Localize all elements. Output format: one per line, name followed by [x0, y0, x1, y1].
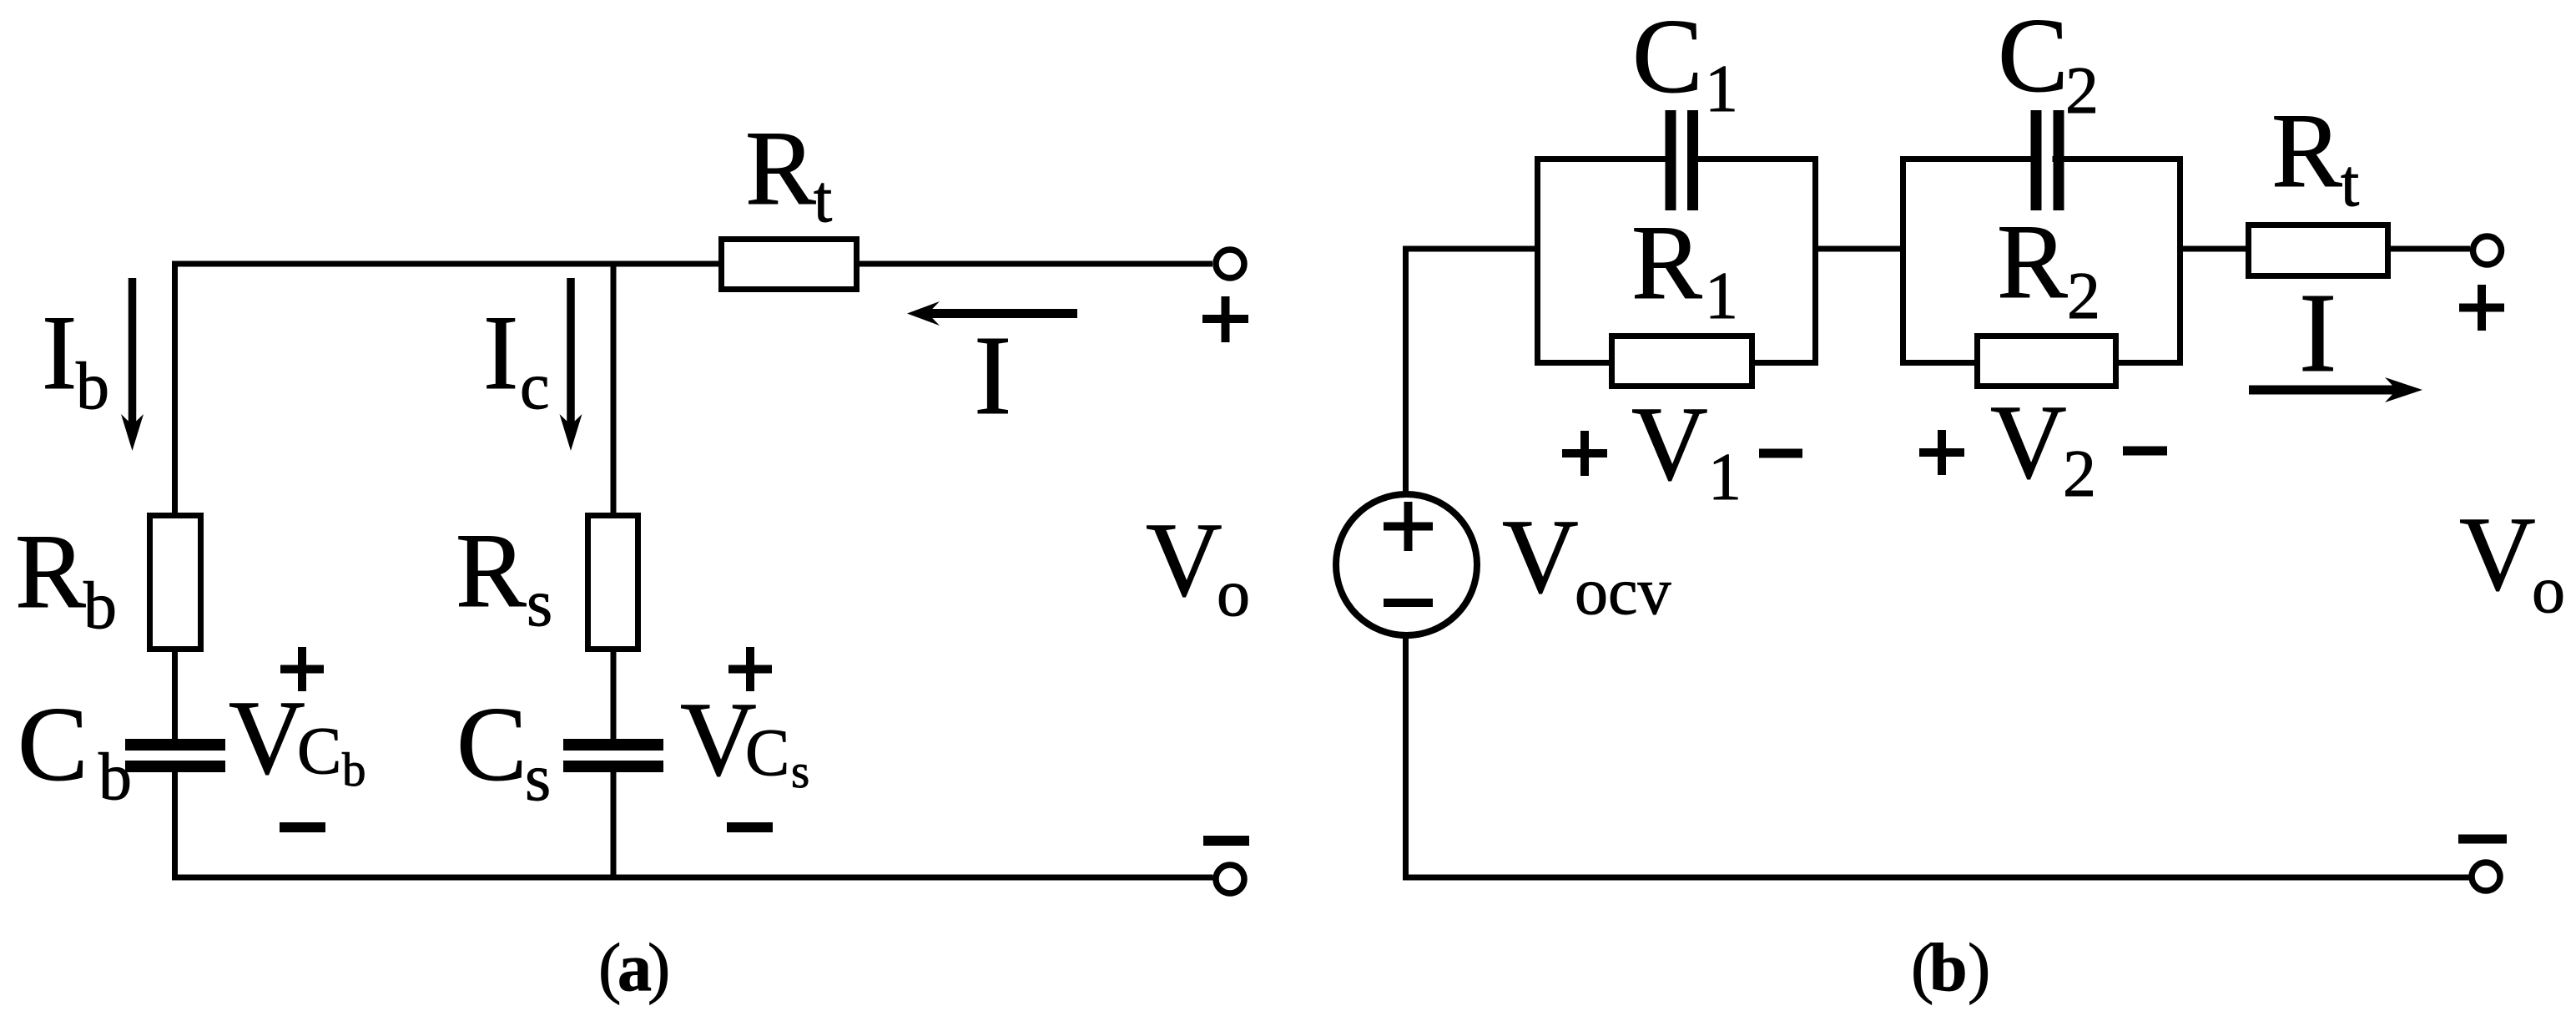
plus sign inside Vocv [1384, 502, 1433, 551]
svg-text:ocv: ocv [1575, 555, 1671, 629]
wire: middle vertical branch lower segment (Cs to bottom rail) [611, 766, 617, 877]
svg-text:V: V [1990, 384, 2067, 501]
svg-text:s: s [791, 746, 809, 798]
resistor Rs body [588, 516, 638, 650]
svg-text:c: c [520, 350, 550, 423]
wire: left vertical branch upper segment (node A to Rb) [172, 261, 178, 748]
voltage source Vocv circle [1336, 494, 1477, 635]
svg-text:s: s [527, 567, 552, 640]
capacitor C1 gap [1674, 150, 1689, 170]
wire: left vertical above Vocv source [1403, 246, 1409, 496]
svg-text:V: V [229, 680, 305, 796]
svg-text:R: R [15, 513, 86, 630]
svg-text:b: b [342, 744, 366, 796]
svg-text:s: s [525, 741, 551, 815]
svg-text:R: R [2271, 93, 2342, 210]
svg-text:2: 2 [2067, 260, 2100, 333]
plus sign at (a) output [1202, 296, 1248, 342]
arrow: current I in (b), pointing right [2249, 386, 2407, 395]
svg-text:I: I [974, 313, 1011, 438]
svg-text:I: I [2299, 270, 2337, 396]
minus sign inside Vocv [1384, 599, 1433, 607]
wire: left vertical below Vocv source [1403, 634, 1409, 881]
svg-text:C: C [18, 686, 88, 803]
arrow: current Ic, pointing down [567, 278, 575, 431]
svg-text:R: R [456, 513, 527, 629]
resistor R2 body [1978, 336, 2116, 387]
wire: middle vertical branch upper segment (node B to Rs) [611, 261, 617, 748]
svg-text:1: 1 [1705, 260, 1738, 333]
wire: RC2 loop to Rt and + terminal [2180, 246, 2470, 252]
svg-text:V: V [2459, 496, 2536, 613]
label VCb with polarity [280, 647, 324, 691]
svg-text:o: o [1217, 557, 1250, 630]
svg-text:C: C [1632, 0, 1703, 115]
capacitor Cs plates [563, 739, 663, 751]
terminal: (a) positive output [1216, 250, 1244, 278]
wire: between RC1 and RC2 loops [1815, 246, 1903, 252]
wire: source top to RC1 loop [1403, 246, 1538, 252]
svg-text:I: I [483, 295, 518, 412]
svg-text:R: R [745, 110, 816, 227]
wire: bottom rail of (b) [1403, 875, 2469, 881]
wire: left vertical branch lower segment (Cb to bottom rail) [172, 766, 178, 877]
label V2 with polarity [1919, 430, 1964, 475]
svg-text:C: C [456, 686, 527, 803]
svg-text:b: b [98, 741, 132, 814]
arrow: current Ib, pointing down [129, 278, 137, 431]
svg-text:): ) [1968, 929, 1990, 1005]
resistor Rb body [150, 516, 201, 650]
svg-text:t: t [2341, 147, 2359, 220]
node loop R1C1 [1538, 159, 1816, 363]
svg-text:2: 2 [2065, 54, 2099, 128]
svg-text:t: t [814, 163, 832, 236]
label V1 with polarity [1562, 431, 1607, 476]
terminal: (b) negative output [2472, 862, 2500, 891]
svg-text:I: I [42, 295, 77, 412]
svg-text:1: 1 [1705, 53, 1738, 126]
svg-text:o: o [2532, 553, 2565, 627]
capacitor C1 plates [1666, 110, 1676, 210]
label VCs with polarity [728, 647, 772, 691]
svg-text:b: b [1929, 929, 1968, 1005]
svg-text:C: C [1998, 0, 2069, 114]
minus sign at (a) output [1203, 836, 1249, 846]
resistor Rt body (a) [722, 240, 857, 290]
svg-text:C: C [745, 716, 789, 790]
svg-text:1: 1 [1708, 441, 1742, 514]
svg-text:a: a [618, 929, 652, 1005]
terminal: (a) negative output [1216, 865, 1244, 893]
arrow: current I in (a), pointing left [922, 309, 1077, 318]
plus sign at (b) output [2459, 285, 2504, 331]
resistor Rt body (b) [2249, 225, 2388, 276]
capacitor C2 plates [2031, 110, 2042, 210]
minus sign at (b) output [2458, 835, 2507, 844]
svg-text:b: b [76, 350, 109, 423]
terminal: (b) positive output [2473, 236, 2502, 265]
capacitor Cb plates [125, 739, 225, 751]
wire: top rail of (a) from left corner to + terminal [172, 261, 1212, 267]
node loop R2C2 [1903, 159, 2180, 363]
svg-text:R: R [1997, 204, 2068, 321]
svg-text:V: V [1502, 498, 1579, 615]
svg-text:): ) [648, 929, 670, 1005]
svg-text:V: V [1146, 502, 1222, 619]
svg-text:V: V [1631, 386, 1708, 503]
resistor R1 body [1612, 336, 1752, 387]
capacitor C2 gap [2040, 150, 2053, 170]
svg-text:R: R [1631, 205, 1702, 321]
svg-text:2: 2 [2063, 437, 2096, 511]
svg-text:C: C [297, 715, 341, 788]
svg-text:b: b [83, 569, 117, 643]
wire: bottom rail of (a) [172, 875, 1213, 881]
